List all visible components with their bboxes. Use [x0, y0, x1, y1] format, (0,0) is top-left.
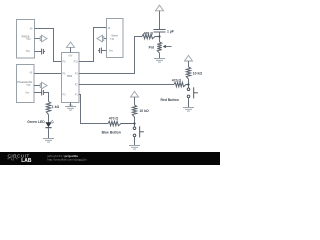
node junction pot/cap	[158, 35, 160, 37]
svg-text:T40: T40	[26, 84, 31, 87]
wire R6 to junction	[134, 117, 136, 127]
wire U3.P3 to pot link	[79, 37, 142, 74]
resistor R7 470 Ohm	[108, 121, 135, 125]
wire U3 Vss to ground	[70, 103, 72, 107]
resistor R5 1 kOhm	[46, 102, 50, 115]
svg-text:10 kΩ: 10 kΩ	[139, 109, 149, 113]
svg-text:1 kΩ: 1 kΩ	[52, 105, 60, 109]
wire MK2 to resistor R5	[44, 93, 49, 102]
svg-text:LAB: LAB	[21, 158, 32, 164]
svg-text:1 µF: 1 µF	[167, 29, 174, 33]
wire VCC to C1	[159, 11, 161, 29]
wire U2 pinA to U3.P5	[34, 73, 62, 75]
footer credit text	[46, 154, 87, 162]
footer bar	[0, 152, 220, 165]
microphone MK2	[42, 90, 44, 96]
svg-text:470 Ω: 470 Ω	[109, 117, 119, 121]
svg-text:470 Ω: 470 Ω	[172, 78, 182, 82]
resistor R6 10 kOhm	[132, 105, 136, 117]
wire U2 speaker stub	[34, 85, 40, 87]
ground blue	[129, 146, 140, 150]
microphone MK1	[42, 49, 45, 55]
wire SW2 to ground	[134, 137, 136, 146]
microphone MK3	[98, 48, 101, 54]
wire U3.P2 to R4	[79, 84, 174, 86]
svg-text:T40: T40	[26, 50, 31, 53]
wire VCC to R6	[134, 97, 136, 105]
svg-text:Red Button: Red Button	[161, 98, 179, 102]
servo module U4	[107, 19, 124, 58]
svg-text:Servo: Servo	[111, 34, 118, 37]
wire U2 mic stub	[34, 92, 41, 94]
svg-text:http://circuitlab.com/c/pqgg2m: http://circuitlab.com/c/pqgg2m	[47, 158, 87, 162]
wire R3 to junction	[188, 79, 190, 88]
sensor module U1 PING)))	[17, 20, 35, 59]
pushbutton SW1	[187, 87, 198, 98]
speaker SP1	[40, 35, 47, 42]
power flag +5V (pot column)	[156, 5, 164, 11]
wire U3.P1 to R7	[79, 95, 108, 124]
wire U1 mic stub	[35, 51, 42, 53]
wire U4 speaker stub	[104, 38, 107, 40]
svg-text:T40: T40	[110, 38, 115, 41]
capacitor C1 1uF	[154, 30, 166, 33]
node junction red	[187, 83, 189, 85]
power flag +5V (red column)	[185, 55, 193, 61]
sensor module U2 Photocell	[17, 65, 35, 103]
wire pot to ground	[159, 53, 161, 59]
svg-text:Green LED: Green LED	[27, 120, 45, 124]
speaker SP3	[97, 35, 104, 42]
wire U3.P15 to servo U4 pin1	[79, 28, 107, 62]
svg-text:P15: P15	[74, 61, 79, 64]
wire VCC to R3	[188, 61, 190, 67]
wire U4 mic stub	[102, 50, 107, 52]
wire U1 speaker stub	[35, 38, 41, 40]
U3 pin/name labels	[63, 54, 79, 96]
resistor R3 10 kOhm	[186, 67, 190, 79]
wire LED to ground	[48, 128, 50, 138]
wire SW1 to ground	[188, 98, 190, 108]
CircuitLab logo	[7, 154, 32, 165]
MCU U3 BS2	[62, 53, 80, 103]
svg-text:Blue Button: Blue Button	[102, 130, 121, 134]
U1 pin/name labels	[22, 27, 33, 53]
svg-text:Pot: Pot	[149, 45, 155, 49]
ground pot	[154, 59, 165, 63]
wire U1 pin1 to U3.P6	[35, 29, 62, 62]
resistor R4 470 Ohm	[174, 82, 189, 86]
potentiometer R2	[157, 42, 161, 53]
wire VCC to U3	[70, 47, 72, 52]
U2 pin/name labels	[17, 72, 32, 95]
U4 pin/name labels	[108, 27, 119, 52]
speaker SP2	[40, 82, 47, 89]
pushbutton SW2	[133, 126, 144, 137]
power flag +5V (blue column)	[131, 91, 139, 97]
wire C1 to junction	[159, 33, 161, 43]
svg-text:470 Ω: 470 Ω	[144, 31, 154, 35]
ground U3	[65, 107, 76, 111]
ground red	[183, 108, 194, 112]
node junction blue	[133, 122, 135, 124]
resistor R1 470 Ohm	[142, 34, 160, 38]
LED D1 Green	[45, 120, 54, 127]
power flag +5V (U3)	[67, 42, 75, 47]
svg-text:T40: T40	[26, 38, 31, 41]
pot wiper arrow	[163, 45, 171, 47]
wire R5 to LED	[48, 115, 50, 123]
svg-text:+5V: +5V	[68, 54, 73, 57]
svg-text:10 kΩ: 10 kΩ	[193, 71, 203, 75]
svg-text:BS2: BS2	[67, 75, 72, 78]
ground LED	[43, 139, 54, 143]
